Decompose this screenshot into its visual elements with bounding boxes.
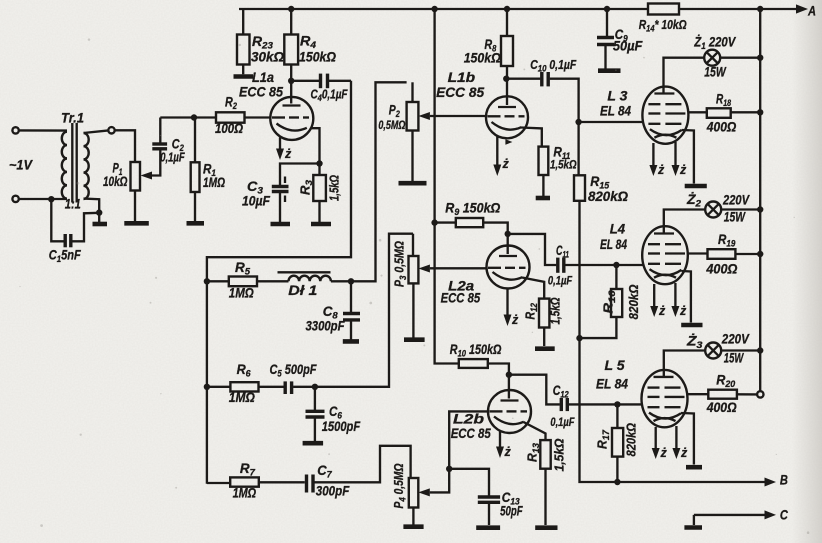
triode L2b ECC85 <box>451 372 531 442</box>
wire: L2a anode to C11 <box>508 234 557 265</box>
resistor R5 1MOhm <box>207 260 289 301</box>
svg-text:ż: ż <box>658 304 666 318</box>
svg-text:EL 84: EL 84 <box>596 376 628 392</box>
ground (C8) <box>343 339 359 344</box>
ground (C output) <box>684 525 702 530</box>
potentiometer P2 0.5MOhm <box>378 82 486 181</box>
ground (L4 cathode) <box>681 323 702 328</box>
heater arrow z (L2a) <box>504 289 520 328</box>
svg-text:B: B <box>780 473 788 488</box>
resistor R23 30kOhm <box>237 9 284 74</box>
lamp Z1 220V 15W <box>664 35 761 94</box>
heater arrow z (L1b) <box>493 137 512 177</box>
svg-text:EL 84: EL 84 <box>600 236 627 252</box>
resistor R18 400Ohm <box>688 92 760 135</box>
svg-text:15W: 15W <box>704 65 726 80</box>
svg-text:1500pF: 1500pF <box>322 419 361 434</box>
svg-text:ECC 85: ECC 85 <box>441 291 481 306</box>
resistor R7 1MOhm <box>207 461 305 501</box>
pentode L3 EL84 <box>600 87 688 144</box>
svg-text:L4: L4 <box>610 222 626 237</box>
svg-text:1,5kΩ: 1,5kΩ <box>549 297 563 324</box>
ground (L3 cathode) <box>685 184 707 189</box>
wire: C4 coupling down to tone network <box>207 81 351 484</box>
svg-text:15W: 15W <box>724 210 746 225</box>
ground (P4) <box>403 524 423 529</box>
inductor Dl1 <box>278 272 352 298</box>
svg-text:220V: 220V <box>721 332 750 347</box>
capacitor C12 0.1uF <box>550 383 642 429</box>
ground (R11) <box>536 196 550 201</box>
ground (R13) <box>535 525 557 530</box>
svg-text:1,5kΩ: 1,5kΩ <box>328 175 342 201</box>
heater arrows z z (L5) <box>652 426 688 460</box>
node: tone network rail junctions <box>204 278 210 390</box>
svg-text:R14* 10kΩ: R14* 10kΩ <box>639 17 687 35</box>
svg-text:ż: ż <box>660 446 668 460</box>
svg-text:L1b: L1b <box>448 70 476 85</box>
resistor R19 400Ohm <box>688 232 760 277</box>
transformer Tr.1 <box>12 111 114 223</box>
svg-text:300pF: 300pF <box>316 484 350 499</box>
svg-text:C: C <box>780 508 788 523</box>
ground (R1) <box>187 221 205 226</box>
wire: L3 cathode <box>682 130 694 184</box>
pentode L4 EL84 <box>600 222 688 285</box>
ground (P3) <box>404 337 425 342</box>
resistor R20 400Ohm <box>688 373 764 416</box>
svg-text:100Ω: 100Ω <box>215 121 243 136</box>
svg-text:ż: ż <box>680 446 688 460</box>
wire: feedback node to P2 top <box>348 82 407 284</box>
svg-text:400Ω: 400Ω <box>705 262 737 277</box>
heater arrow z (L1a) <box>276 138 292 162</box>
ground (R23) <box>234 74 254 79</box>
ground (C9) <box>598 68 621 73</box>
wire: L5 cathode <box>681 413 694 465</box>
svg-text:ECC 85: ECC 85 <box>436 84 484 100</box>
capacitor C6 1500pF <box>306 387 361 441</box>
wire: L2b anode to C12 <box>509 375 560 405</box>
svg-text:10kΩ: 10kΩ <box>103 174 128 189</box>
wire: right B+ bus <box>757 9 763 391</box>
resistor R11 1.5kOhm <box>539 145 578 197</box>
ground (P1) <box>124 221 149 226</box>
resistor R8 150kOhm <box>464 9 513 105</box>
resistor R6 1MOhm <box>207 362 284 405</box>
ground (P2) <box>399 181 427 186</box>
svg-text:C15nF: C15nF <box>49 248 82 266</box>
svg-text:ż: ż <box>679 163 687 177</box>
resistor R1 1MOhm <box>191 118 226 222</box>
resistor R3 1.5kOhm <box>299 164 342 223</box>
svg-text:10µF: 10µF <box>242 194 271 209</box>
svg-text:1,5kΩ: 1,5kΩ <box>553 438 567 471</box>
potentiometer P1 10kOhm <box>103 130 152 221</box>
capacitor C4 0.1uF <box>288 74 351 104</box>
heater arrows z z (L4) <box>650 283 687 318</box>
wire: bias line down to node B <box>576 201 617 482</box>
svg-text:ż: ż <box>504 445 512 459</box>
triode L1a ECC85 <box>239 70 313 140</box>
node A (output arrow) <box>796 4 816 19</box>
capacitor C5 500pF <box>270 362 318 394</box>
wire: L4 cathode <box>682 271 691 323</box>
node: L3 grid <box>575 119 643 125</box>
svg-text:50µF: 50µF <box>613 39 643 54</box>
resistor R15 820kOhm <box>574 122 628 204</box>
svg-text:220V: 220V <box>722 193 750 208</box>
wire: L1a cathode <box>280 128 323 185</box>
resistor R10 150kOhm <box>450 342 509 399</box>
resistor R13 1.5kOhm <box>526 438 567 525</box>
svg-text:820kΩ: 820kΩ <box>627 284 641 319</box>
node C (output arrow with ground) <box>694 508 788 526</box>
ground (C13) <box>476 525 500 530</box>
wire: L2b cathode <box>524 422 546 440</box>
svg-text:ż: ż <box>679 304 687 318</box>
svg-text:~1V: ~1V <box>9 158 33 173</box>
pentode L5 EL84 <box>596 358 688 427</box>
svg-text:Ż1 220V: Ż1 220V <box>693 35 736 53</box>
svg-text:L2b: L2b <box>453 412 484 427</box>
svg-text:ECC 85: ECC 85 <box>451 426 491 441</box>
ground (C3) <box>271 222 291 227</box>
wire: B+ top rail <box>239 6 801 12</box>
svg-text:0,5MΩ: 0,5MΩ <box>378 118 405 132</box>
svg-text:400Ω: 400Ω <box>706 120 737 135</box>
capacitor C7 300pF <box>307 446 411 499</box>
ground (L5 cathode) <box>686 465 702 470</box>
capacitor C9 50uF <box>597 9 643 69</box>
svg-text:820kΩ: 820kΩ <box>588 189 628 204</box>
ground (C6) <box>303 441 324 446</box>
svg-text:150kΩ: 150kΩ <box>464 51 501 66</box>
svg-text:50pF: 50pF <box>500 504 523 519</box>
potentiometer P3 0.5MOhm <box>393 234 487 338</box>
capacitor C3 10uF electrolytic <box>242 177 289 223</box>
svg-text:1MΩ: 1MΩ <box>229 286 254 301</box>
resistor R12 1.5kOhm <box>524 297 563 346</box>
wire: L2a cathode <box>522 278 544 299</box>
resistor R4 150kOhm <box>284 9 336 104</box>
node B (bias line output arrow) <box>617 473 788 488</box>
svg-text:0,1µF: 0,1µF <box>550 415 575 429</box>
wire: L1b cathode <box>521 128 542 147</box>
wire: B+ feed for L2a/L2b anode loads <box>431 9 458 364</box>
svg-text:ż: ż <box>502 157 510 171</box>
svg-text:0,1µF: 0,1µF <box>160 151 185 165</box>
resistor R14 10kOhm (in rail) <box>639 4 687 35</box>
heater arrow z (L2b) <box>496 431 512 460</box>
resistor R16 820kOhm <box>580 262 642 338</box>
resistor R9 150kOhm <box>435 201 508 255</box>
svg-text:C5 500pF: C5 500pF <box>270 362 318 380</box>
svg-text:0,1µF: 0,1µF <box>548 274 573 288</box>
capacitor C13 50pF <box>446 466 523 525</box>
heater arrows z z (L3) <box>649 142 687 177</box>
svg-text:820kΩ: 820kΩ <box>625 423 639 457</box>
svg-text:R9 150kΩ: R9 150kΩ <box>445 201 500 219</box>
svg-text:1MΩ: 1MΩ <box>229 390 255 405</box>
ground (R3) <box>311 222 331 227</box>
lamp Z3 220V 15W <box>664 332 760 377</box>
svg-text:30kΩ: 30kΩ <box>251 50 284 65</box>
resistor R17 820kOhm <box>596 401 639 485</box>
svg-text:15W: 15W <box>724 351 744 366</box>
ground (transformer) <box>93 222 108 227</box>
capacitor C2 0.1uF <box>151 118 185 176</box>
svg-text:3300pF: 3300pF <box>306 319 346 334</box>
triode L1b ECC85 <box>436 70 528 138</box>
svg-text:ż: ż <box>284 147 292 161</box>
wire: C5 node to P3 top <box>312 234 413 390</box>
lamp Z2 220V 15W <box>664 192 760 233</box>
ground (R12) <box>535 346 555 351</box>
potentiometer P4 0.5MOhm <box>392 411 489 524</box>
svg-text:ż: ż <box>657 163 665 177</box>
resistor R2 100Ohm <box>160 95 270 137</box>
svg-text:1:1: 1:1 <box>65 197 81 212</box>
svg-text:ż: ż <box>511 313 519 327</box>
svg-text:150kΩ: 150kΩ <box>299 50 336 65</box>
triode L2a ECC85 <box>441 231 530 306</box>
svg-text:L 5: L 5 <box>605 358 626 373</box>
capacitor C1 5nF <box>49 199 99 265</box>
capacitor C8 3300pF <box>306 281 361 339</box>
svg-text:Dł 1: Dł 1 <box>288 283 317 298</box>
capacitor C10 0.1uF <box>503 58 579 122</box>
svg-text:400Ω: 400Ω <box>706 400 737 415</box>
svg-text:1MΩ: 1MΩ <box>203 175 225 190</box>
capacitor C11 0.1uF <box>548 243 643 288</box>
svg-text:1MΩ: 1MΩ <box>233 486 257 501</box>
svg-text:ECC 85: ECC 85 <box>239 84 283 100</box>
svg-text:EL 84: EL 84 <box>600 103 631 119</box>
svg-text:A: A <box>807 4 816 19</box>
svg-text:1,5kΩ: 1,5kΩ <box>550 158 577 172</box>
svg-text:L 3: L 3 <box>607 89 628 104</box>
